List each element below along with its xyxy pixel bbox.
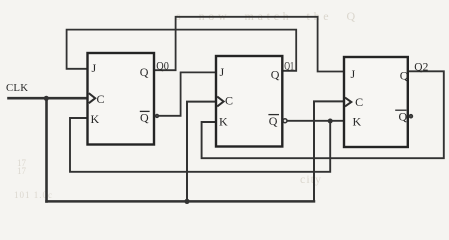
svg-text:Q0: Q0: [156, 58, 169, 72]
svg-text:Q1: Q1: [284, 59, 294, 73]
svg-text:CLK: CLK: [6, 82, 28, 94]
svg-text:J: J: [92, 61, 97, 75]
svg-text:C: C: [97, 92, 105, 106]
svg-text:K: K: [219, 115, 228, 129]
svg-text:C: C: [225, 94, 233, 108]
svg-text:Q: Q: [140, 65, 149, 79]
svg-text:Q: Q: [269, 114, 278, 128]
svg-text:Q: Q: [399, 109, 408, 123]
svg-text:J: J: [220, 65, 225, 79]
svg-text:city: city: [300, 172, 322, 186]
svg-text:J: J: [351, 67, 356, 81]
svg-text:17: 17: [17, 166, 27, 176]
svg-text:Q: Q: [400, 69, 409, 83]
svg-text:K: K: [353, 115, 362, 129]
svg-text:Q: Q: [271, 68, 280, 82]
svg-text:K: K: [91, 112, 100, 126]
svg-text:C: C: [355, 95, 363, 109]
svg-text:Q: Q: [140, 111, 149, 125]
svg-text:Q2: Q2: [414, 59, 428, 73]
